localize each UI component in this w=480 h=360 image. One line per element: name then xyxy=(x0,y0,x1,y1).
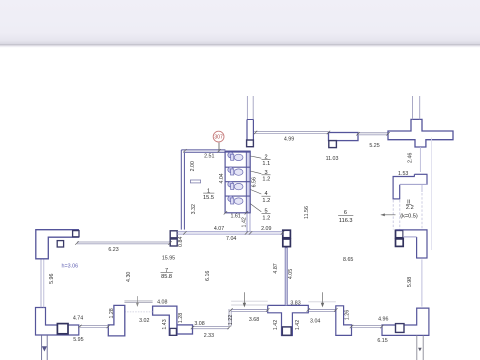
svg-text:7.04: 7.04 xyxy=(226,236,236,242)
svg-text:1: 1 xyxy=(207,188,210,194)
svg-text:3.68: 3.68 xyxy=(249,317,259,323)
svg-text:6.23: 6.23 xyxy=(108,247,118,253)
svg-text:307: 307 xyxy=(214,135,223,141)
svg-text:1.28: 1.28 xyxy=(109,308,115,318)
svg-text:4.08: 4.08 xyxy=(157,300,167,306)
svg-text:4.96: 4.96 xyxy=(378,316,388,322)
svg-text:85.8: 85.8 xyxy=(161,274,172,280)
svg-text:15.5: 15.5 xyxy=(203,195,214,201)
svg-text:1.1: 1.1 xyxy=(262,161,270,167)
svg-text:3.32: 3.32 xyxy=(191,204,197,214)
svg-text:7: 7 xyxy=(165,268,168,274)
svg-text:4: 4 xyxy=(264,191,267,197)
svg-text:116.3: 116.3 xyxy=(339,218,353,224)
svg-text:8.65: 8.65 xyxy=(343,257,353,263)
svg-text:5.25: 5.25 xyxy=(369,143,379,149)
svg-text:1.2: 1.2 xyxy=(262,198,270,204)
svg-text:6.16: 6.16 xyxy=(205,271,211,281)
svg-text:2.33: 2.33 xyxy=(204,333,214,339)
svg-text:2.2: 2.2 xyxy=(406,205,414,211)
svg-text:(k=0.5): (k=0.5) xyxy=(400,213,418,219)
svg-text:5: 5 xyxy=(264,209,267,215)
svg-text:3: 3 xyxy=(264,170,267,176)
svg-text:5.95: 5.95 xyxy=(73,337,83,343)
svg-text:4.07: 4.07 xyxy=(214,226,224,232)
svg-text:3.83: 3.83 xyxy=(290,301,300,307)
svg-text:1.42: 1.42 xyxy=(295,320,301,330)
svg-text:1.61: 1.61 xyxy=(230,214,240,220)
svg-text:1.28: 1.28 xyxy=(178,313,184,323)
svg-text:2: 2 xyxy=(264,154,267,160)
svg-text:h=3.06: h=3.06 xyxy=(61,263,78,269)
svg-text:2.46: 2.46 xyxy=(407,153,413,163)
svg-text:5.98: 5.98 xyxy=(407,277,413,287)
svg-text:3.04: 3.04 xyxy=(310,319,320,325)
svg-text:1.43: 1.43 xyxy=(162,319,168,329)
svg-text:3.02: 3.02 xyxy=(139,318,149,324)
svg-text:1.26: 1.26 xyxy=(344,310,350,320)
svg-text:6: 6 xyxy=(344,210,347,216)
svg-text:4.04: 4.04 xyxy=(219,173,225,183)
svg-text:1.42: 1.42 xyxy=(241,217,247,227)
svg-text:1.2: 1.2 xyxy=(262,215,270,221)
svg-text:1.53: 1.53 xyxy=(398,171,408,177)
svg-text:15.95: 15.95 xyxy=(162,256,175,262)
svg-text:4.30: 4.30 xyxy=(126,272,132,282)
svg-text:6.56: 6.56 xyxy=(251,177,257,187)
svg-text:4.05: 4.05 xyxy=(288,269,294,279)
svg-text:2.51: 2.51 xyxy=(204,154,214,160)
svg-text:4.87: 4.87 xyxy=(273,263,279,273)
svg-text:4.74: 4.74 xyxy=(73,316,83,322)
svg-text:1.2: 1.2 xyxy=(262,176,270,182)
svg-text:5.96: 5.96 xyxy=(49,273,55,283)
svg-text:11.56: 11.56 xyxy=(304,206,310,219)
svg-text:1.42: 1.42 xyxy=(273,320,279,330)
svg-text:11.03: 11.03 xyxy=(326,156,339,162)
svg-text:3.08: 3.08 xyxy=(194,321,204,327)
svg-text:4.99: 4.99 xyxy=(284,137,294,143)
svg-text:0.84: 0.84 xyxy=(178,236,184,246)
svg-text:2.00: 2.00 xyxy=(190,161,196,171)
svg-text:6.15: 6.15 xyxy=(377,338,387,344)
svg-text:2.09: 2.09 xyxy=(261,226,271,232)
svg-text:1.22: 1.22 xyxy=(228,315,234,325)
